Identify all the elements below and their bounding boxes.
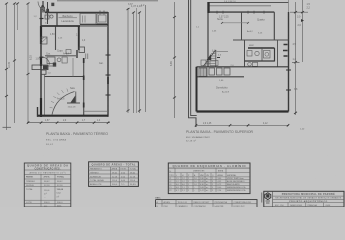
stair dark wedge	[207, 54, 212, 60]
table3 outer border	[168, 163, 250, 194]
suite window ticks	[217, 11, 264, 14]
right dimension line A	[127, 8, 129, 113]
closet box	[80, 14, 96, 25]
table3 column lines	[175, 168, 226, 192]
wc wall top	[41, 6, 45, 8]
hall dim line	[217, 51, 229, 53]
bath mid divider	[261, 48, 263, 61]
garage front line	[84, 110, 108, 112]
vent double ticks	[86, 54, 88, 60]
stair newel vertical	[75, 92, 77, 104]
top wall window ticks	[100, 11, 104, 15]
bath shower box	[264, 51, 271, 59]
bottom dim numbers	[203, 123, 268, 125]
text cluster kitchen	[57, 51, 70, 56]
table1 title	[26, 163, 68, 208]
stair upper treads	[205, 52, 215, 64]
stair radial treads	[50, 89, 68, 108]
right dim tick cross mid	[292, 62, 300, 64]
entry door arc top-left	[38, 2, 50, 12]
table1 outer border	[24, 163, 71, 207]
table2 column lines	[110, 167, 128, 187]
copa wall vertical	[55, 26, 57, 50]
right dimension line C	[136, 8, 138, 113]
balcony edge line upper	[209, 2, 289, 4]
bath toilet bowl	[255, 51, 259, 55]
closet row bottom wall	[197, 76, 245, 78]
bottom dim numbers	[45, 120, 101, 122]
right wall	[107, 12, 109, 117]
stair side wall	[215, 50, 217, 67]
wc wall vertical	[44, 7, 46, 13]
closet row label	[219, 80, 224, 82]
bath bottom wall	[245, 60, 275, 62]
right dim tick marks	[294, 11, 304, 114]
below bath fixture rect	[253, 62, 258, 66]
closet row box2	[217, 68, 223, 75]
hall rail vertical	[44, 74, 46, 116]
counter sink circle	[57, 58, 61, 62]
left dimension line C	[17, 3, 19, 30]
right dim line B	[302, 0, 304, 62]
title block outer border	[264, 191, 344, 207]
corner post	[207, 2, 209, 13]
small rect in kitchen	[66, 50, 71, 54]
interior left wall	[207, 13, 209, 67]
table2 row lines	[89, 167, 139, 182]
right dim arrow blob	[301, 19, 304, 22]
entry dark blob	[46, 9, 49, 12]
left dim line	[174, 2, 176, 118]
balcony edge line lower	[209, 5, 271, 7]
dormitorio label	[216, 87, 230, 94]
closet dark marks right	[283, 45, 288, 57]
interior wall vertical (banheiro)	[56, 13, 58, 27]
small dim marks mid	[50, 34, 80, 37]
entry hinge blob	[41, 5, 44, 8]
title block bottom cells	[288, 203, 323, 207]
room labels upper	[212, 18, 265, 52]
wall dim text left	[36, 59, 41, 61]
suite right wall	[273, 12, 275, 40]
window double box	[97, 14, 108, 24]
wc fixture rect	[45, 15, 49, 19]
bottom wall	[197, 110, 289, 112]
left dimension line B	[14, 3, 16, 123]
kitchen wall segment	[76, 50, 78, 58]
closet row hatch box	[199, 68, 207, 76]
table4 label	[155, 197, 161, 199]
porch slab box	[32, 65, 48, 70]
bottom dim ticks	[27, 121, 110, 123]
bottom dim line	[196, 124, 289, 126]
lavanderia counter line	[59, 17, 78, 19]
bath label	[249, 45, 255, 47]
stair upper diagonal	[204, 51, 216, 67]
stair landing line	[67, 102, 80, 104]
top wall text	[219, 17, 229, 19]
kitchen text	[46, 54, 51, 56]
left wall	[40, 7, 42, 117]
dark box by entry	[51, 3, 54, 6]
sill hatch diagonals	[41, 37, 47, 43]
property line outer	[189, 0, 197, 118]
table1 column lines	[41, 174, 55, 207]
left wall window dash	[40, 18, 44, 20]
bath top wall	[248, 47, 275, 49]
bottom dim drop line	[195, 118, 197, 127]
small square fixture	[79, 47, 85, 53]
closet divider	[277, 40, 279, 67]
logo emblem	[265, 193, 271, 200]
interior wall dark dashes	[83, 58, 85, 108]
counter box right	[62, 57, 67, 63]
property line inner	[191, 0, 197, 116]
left dimension line A	[6, 3, 8, 130]
bottom-left corner post	[37, 107, 39, 117]
left dim text	[8, 55, 33, 68]
wc fixture circle	[50, 15, 53, 18]
table2 title	[90, 162, 137, 187]
closet hatch lines	[201, 68, 207, 76]
hall fixtures	[201, 60, 206, 66]
stair dark wedge	[71, 96, 76, 103]
right dimension line D	[139, 12, 141, 113]
left wall dark segments	[40, 26, 42, 117]
title block row lines	[273, 196, 344, 203]
table3 row lines	[168, 173, 250, 189]
entry jamb line A	[42, 1, 44, 13]
right dim line A	[295, 2, 297, 115]
dim text top right	[131, 4, 142, 8]
hall fixture 2	[210, 61, 218, 66]
closet row box3	[224, 68, 230, 75]
top wall suite	[210, 11, 275, 13]
table4 row line	[156, 203, 258, 205]
left dim ticks mid	[5, 60, 30, 98]
porch step text	[48, 73, 52, 75]
hall smudge text	[58, 38, 63, 40]
title block texts	[275, 193, 342, 207]
logo base mark	[266, 201, 271, 203]
logo emblem fill	[266, 194, 269, 197]
pillar side text	[82, 40, 86, 42]
hall dim text	[218, 54, 222, 56]
logo cell divider	[272, 191, 274, 207]
bottom wall	[37, 115, 108, 117]
window inner box	[99, 15, 107, 22]
suite divider wall	[241, 12, 243, 40]
closet band thin line	[80, 25, 108, 27]
closet row box1	[209, 68, 215, 75]
right plan title	[186, 130, 254, 142]
table3 title	[169, 163, 246, 192]
window sill hatch on left wall	[41, 37, 47, 44]
below bath fixture circle	[248, 63, 252, 67]
left dimension line D	[27, 3, 29, 123]
closet box ticks	[83, 16, 86, 23]
closet short wall	[72, 58, 74, 77]
bath divider vertical	[244, 40, 246, 67]
right dimension line B	[133, 12, 135, 113]
top edge dim text	[224, 1, 236, 3]
sala label	[57, 62, 104, 101]
right dim cross tick	[290, 11, 308, 13]
dark pillar wall	[78, 26, 80, 50]
top wall	[45, 12, 108, 14]
plan left wall lower	[196, 67, 198, 112]
counter box left	[47, 57, 55, 64]
entry jamb line B	[47, 2, 49, 24]
bath right wall	[274, 48, 276, 62]
interior dim line	[222, 22, 248, 24]
bottom dim ticks	[195, 124, 289, 126]
counter dark appliance	[53, 63, 56, 67]
stair arc	[52, 92, 75, 115]
top dimension line	[57, 0, 158, 2]
closet band dark line	[80, 24, 108, 26]
room label banheiro	[61, 15, 74, 23]
left dim text	[170, 61, 173, 66]
left plan title	[46, 131, 108, 146]
counter bottom edge	[45, 65, 56, 67]
left dim bottom label	[3, 126, 12, 128]
right wall window ticks	[286, 70, 291, 90]
interior dim ticks	[221, 22, 249, 24]
right wall upper thin	[288, 0, 290, 12]
table1 row lines	[24, 170, 71, 204]
bath fixture sink	[247, 51, 252, 57]
bottom dimension line	[27, 122, 110, 124]
table3 title line	[168, 167, 250, 169]
table2 outer border	[89, 162, 139, 187]
right dim text	[128, 3, 145, 7]
stair text	[68, 107, 77, 109]
right wall window ticks	[106, 55, 111, 95]
right dim ticks	[127, 8, 142, 112]
interior wall horizontal	[41, 25, 80, 27]
right dim texts	[293, 3, 311, 91]
counter top line	[45, 55, 76, 57]
hall dark dash	[217, 57, 220, 59]
wc smudge	[45, 23, 49, 25]
right dimension line E	[145, 5, 147, 112]
left wall dim text	[34, 16, 38, 18]
porch dark end	[43, 65, 48, 69]
bath shower drain	[265, 52, 269, 56]
hall wall horizontal	[45, 76, 84, 78]
table4 texts	[157, 201, 252, 208]
table4 column lines	[162, 200, 232, 207]
door arc kitchen	[42, 57, 50, 65]
wall under suites	[233, 39, 289, 41]
suite room texts	[196, 27, 263, 35]
table4 top border	[156, 200, 258, 207]
interior wall vertical (sala/garagem)	[83, 58, 85, 116]
mid floor wall	[197, 66, 289, 68]
hall text2	[231, 65, 235, 67]
left dim ticks top	[5, 3, 30, 5]
porch step box	[41, 70, 46, 74]
right margin small text	[300, 129, 305, 131]
left dim ticks	[173, 16, 176, 99]
title block left mark	[261, 193, 263, 203]
wall dark dash kitchen	[40, 56, 44, 58]
right wall	[288, 12, 290, 112]
